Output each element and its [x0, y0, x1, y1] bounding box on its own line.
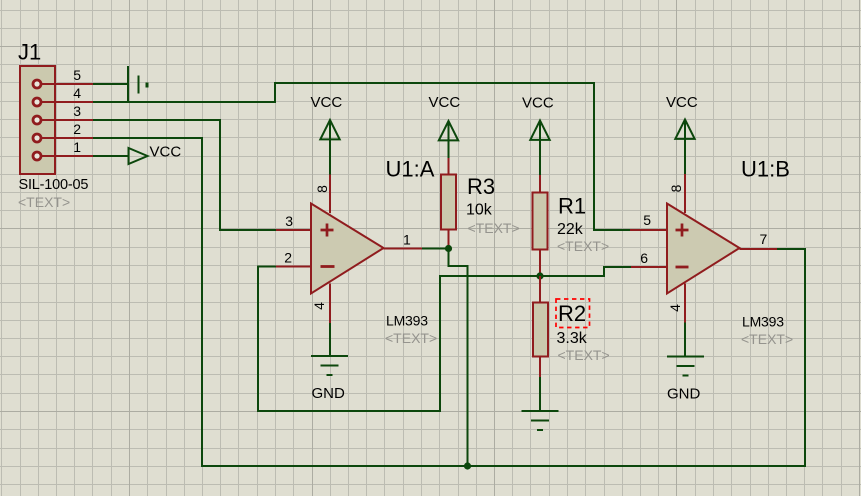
svg-text:LM393: LM393 — [386, 313, 428, 329]
value 22k — [557, 221, 584, 238]
J1 pin 5 lead — [41, 83, 93, 85]
pin number 7 — [760, 231, 768, 247]
wire VCC stem R3 — [448, 121, 450, 158]
svg-text:<TEXT>: <TEXT> — [468, 220, 520, 236]
svg-text:5: 5 — [643, 212, 651, 228]
label R3 — [467, 174, 495, 199]
svg-text:SIL-100-05: SIL-100-05 — [19, 177, 89, 193]
svg-text:8: 8 — [314, 185, 330, 193]
junction node on output bus — [464, 462, 471, 469]
R3 bottom lead — [448, 230, 450, 249]
placeholder <TEXT> of R3 — [468, 220, 520, 236]
svg-text:<TEXT>: <TEXT> — [741, 331, 793, 347]
wire stub vertical at battery — [127, 66, 129, 102]
svg-text:2: 2 — [284, 250, 292, 266]
connector J1 pin circle 5 — [33, 80, 41, 88]
R2 bottom lead — [539, 357, 541, 378]
pin number 6 — [640, 250, 648, 266]
connector J1 pin circle 2 — [33, 134, 41, 142]
wire J1 pin2 to output bus — [93, 138, 805, 466]
U1:A pin1 lead — [384, 248, 423, 250]
U1:A pin8 lead — [329, 175, 331, 214]
svg-text:1: 1 — [403, 232, 411, 248]
pin number 8 rotated — [314, 185, 330, 193]
pin number 4 of J1 — [73, 85, 81, 101]
svg-text:10k: 10k — [466, 202, 493, 219]
svg-text:3: 3 — [285, 213, 293, 229]
wire U1:A pin1 output to node — [422, 248, 449, 250]
wire U1:A pin2 feedback loop — [258, 267, 631, 412]
op-amp U1:B body — [667, 204, 740, 294]
ground symbol U1:B — [667, 357, 704, 376]
junction node R1-R2 — [536, 272, 543, 279]
label VCC above R3 — [429, 94, 461, 111]
J1 pin 1 lead — [41, 155, 93, 157]
placeholder <TEXT> of J1 — [18, 194, 70, 210]
U1:B pin6 lead — [631, 266, 667, 268]
op-amp U1:A body — [311, 204, 384, 294]
J1 pin 4 lead — [41, 101, 93, 103]
R1 bottom lead — [539, 250, 541, 277]
svg-text:VCC: VCC — [666, 94, 698, 111]
svg-text:VCC: VCC — [150, 144, 182, 161]
ground symbol U1:A — [311, 356, 348, 375]
svg-text:VCC: VCC — [311, 94, 343, 111]
svg-text:4: 4 — [667, 304, 683, 312]
power VCC arrow right at J1 pin1 — [129, 148, 148, 164]
wire VCC stem R1 — [539, 121, 541, 176]
pin number 5 of J1 — [73, 67, 81, 83]
svg-text:VCC: VCC — [429, 94, 461, 111]
svg-text:4: 4 — [311, 302, 327, 310]
U1:A pin4 lead — [329, 284, 331, 324]
U1:B pin8 lead — [684, 174, 686, 213]
label U1:A — [386, 157, 435, 182]
value SIL-100-05 — [19, 177, 89, 193]
power VCC arrow above U1:B — [675, 120, 694, 139]
placeholder <TEXT> of U1:B — [741, 331, 793, 347]
wire J1 pin4 to U1:B pin5 — [93, 83, 630, 230]
U1:A pin3 lead — [276, 229, 311, 231]
R2 top lead — [539, 276, 541, 303]
wire node to bottom bus — [449, 249, 468, 467]
svg-text:22k: 22k — [557, 221, 584, 238]
pin number 8 of U1:B rotated — [668, 184, 684, 192]
svg-text:LM393: LM393 — [742, 314, 784, 330]
wire J1 pin3 to U1:A pin3 — [93, 120, 276, 230]
svg-text:1: 1 — [73, 139, 81, 155]
svg-text:3.3k: 3.3k — [557, 330, 588, 347]
pin number 4 rotated — [311, 302, 327, 310]
selection box around R2 label — [556, 299, 590, 328]
label R1 — [558, 194, 586, 219]
R1 top lead — [539, 175, 541, 193]
svg-text:4: 4 — [73, 85, 81, 101]
battery long plate — [138, 76, 140, 94]
power VCC arrow above R3 — [439, 121, 458, 140]
label J1 — [18, 40, 41, 65]
svg-text:7: 7 — [760, 231, 768, 247]
svg-text:R3: R3 — [467, 174, 495, 199]
wire J1 pin 5 to stub — [93, 83, 128, 85]
pin number 3 — [285, 213, 293, 229]
svg-text:<TEXT>: <TEXT> — [558, 347, 610, 363]
ground symbol below R2 — [522, 411, 559, 430]
J1 pin 2 lead — [41, 137, 93, 139]
svg-text:GND: GND — [667, 386, 701, 403]
label VCC at J1 pin1 — [150, 144, 182, 161]
pin number 1 — [403, 232, 411, 248]
power VCC arrow above U1:A — [320, 120, 339, 139]
resistor R1 body — [533, 193, 548, 250]
label U1:B — [741, 157, 790, 182]
R3 top lead — [448, 158, 450, 175]
svg-text:6: 6 — [640, 250, 648, 266]
pin number 1 of J1 — [73, 139, 81, 155]
svg-text:GND: GND — [312, 385, 346, 402]
label VCC above R1 — [522, 95, 554, 112]
wire VCC stem U1:B — [684, 120, 686, 175]
pin number 2 — [284, 250, 292, 266]
junction node at U1:A output — [445, 245, 452, 252]
pin number 4 of U1:B rotated — [667, 304, 683, 312]
svg-text:2: 2 — [73, 121, 81, 137]
J1 pin 3 lead — [41, 119, 93, 121]
svg-text:5: 5 — [73, 67, 81, 83]
value LM393 of U1:A — [386, 313, 428, 329]
wire U1:B pin4 to ground — [684, 323, 686, 357]
wire R2 to ground — [539, 377, 541, 411]
svg-text:U1:A: U1:A — [386, 157, 435, 182]
svg-text:<TEXT>: <TEXT> — [18, 194, 70, 210]
label VCC above U1:A — [311, 94, 343, 111]
U1:B pin5 lead — [630, 229, 667, 231]
connector J1 pin circle 3 — [33, 116, 41, 124]
connector J1 pin circle 1 — [33, 152, 41, 160]
svg-text:3: 3 — [73, 103, 81, 119]
U1:B pin4 lead — [684, 284, 686, 323]
resistor R2 body — [533, 303, 548, 357]
label VCC above U1:B — [666, 94, 698, 111]
connector J1 body — [20, 66, 55, 174]
wire U1:A pin4 to ground — [329, 323, 331, 356]
wire J1 pin1 to VCC — [93, 155, 128, 157]
svg-text:J1: J1 — [18, 40, 41, 65]
svg-text:<TEXT>: <TEXT> — [385, 330, 437, 346]
placeholder <TEXT> of R1 — [557, 238, 609, 254]
svg-text:R2: R2 — [558, 301, 586, 326]
label R2 — [558, 301, 586, 326]
pin number 2 of J1 — [73, 121, 81, 137]
U1:B pin7 lead — [740, 248, 778, 250]
battery short plate — [146, 83, 149, 88]
connector J1 pin circle 4 — [33, 98, 41, 106]
placeholder <TEXT> of U1:A — [385, 330, 437, 346]
pin number 5 — [643, 212, 651, 228]
svg-text:U1:B: U1:B — [741, 157, 790, 182]
value LM393 of U1:B — [742, 314, 784, 330]
svg-text:<TEXT>: <TEXT> — [557, 238, 609, 254]
svg-text:R1: R1 — [558, 194, 586, 219]
wire VCC stem U1:A — [329, 120, 331, 175]
svg-text:8: 8 — [668, 184, 684, 192]
value 10k — [466, 202, 493, 219]
resistor R3 body — [441, 175, 456, 230]
power VCC arrow above R1 — [530, 121, 549, 140]
label GND of U1:B — [667, 386, 701, 403]
label GND of U1:A — [312, 385, 346, 402]
svg-text:VCC: VCC — [522, 95, 554, 112]
placeholder <TEXT> of R2 — [558, 347, 610, 363]
U1:A pin2 lead — [276, 266, 311, 268]
pin number 3 of J1 — [73, 103, 81, 119]
value 3.3k — [557, 330, 588, 347]
